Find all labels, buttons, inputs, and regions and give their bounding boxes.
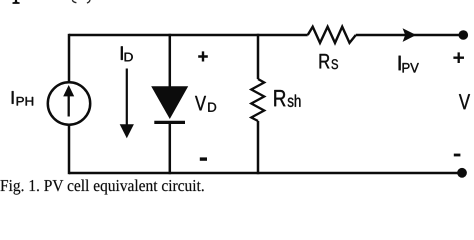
minus sign output [454,154,461,157]
wire Rsh branch upper [257,34,260,79]
minus sign diode [200,157,207,160]
diode cathode bar [154,121,185,124]
current arrow ID [126,69,128,127]
wire top rail right of Rs [356,34,463,37]
label VD main V [195,96,206,110]
cropped text fragment (serif foot) [13,0,20,4]
plus sign output [453,52,464,63]
label IPV main I [399,56,401,70]
wire Rsh branch lower [257,121,260,174]
resistor Rsh zigzag [251,79,264,121]
wire diode branch upper [169,34,172,87]
label Rsh subscript sh [288,94,301,106]
wire left branch upper [68,34,71,82]
label ID main I [121,46,123,59]
caption Fig. 1. PV cell equivalent circuit. [0,179,203,194]
label Rs subscript S [332,59,338,69]
diode D triangle [151,86,188,119]
resistor Rs zigzag [308,27,356,43]
cropped text fragment ( [72,0,76,3]
plus sign diode [198,51,208,61]
cropped text fragment ) [87,0,90,3]
label Rs main R [320,54,330,68]
label ID subscript D [125,53,133,62]
label IPV subscript PV [403,63,419,72]
label Rsh main R [274,90,285,106]
terminal node top right [459,30,469,40]
wire bottom rail [69,172,462,175]
label IPH main I [12,91,14,104]
wire left branch lower [68,125,71,174]
terminal node bottom right [457,168,467,178]
wire top rail [69,34,308,37]
current source IPH circle [48,82,90,124]
label V output [459,94,470,109]
wire diode branch lower [169,122,172,174]
label IPH subscript PH [17,97,33,106]
label VD subscript D [208,103,216,112]
current source arrow [68,95,70,117]
current arrow IPV head [403,28,417,42]
